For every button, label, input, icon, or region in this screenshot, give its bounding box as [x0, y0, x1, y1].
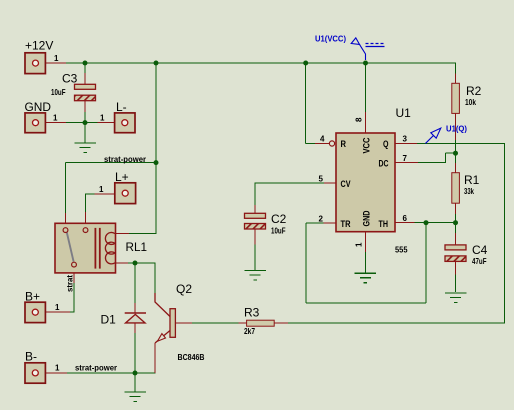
relay switch arm — [67, 232, 74, 261]
junction GND row — [83, 120, 88, 125]
wire B- row — [45, 372, 67, 374]
ground below B- row — [124, 392, 146, 402]
transistor Q2 — [155, 282, 205, 362]
svg-text:strat: strat — [65, 275, 75, 292]
wire C3 drop — [84, 63, 86, 73]
wire GND terminal row — [45, 122, 66, 124]
svg-text:1: 1 — [355, 242, 364, 247]
relay pin circle pole — [72, 262, 77, 267]
svg-text:Q: Q — [383, 139, 389, 150]
wire pin7 DC — [395, 162, 418, 164]
svg-text:10uF: 10uF — [271, 226, 286, 236]
svg-text:U1: U1 — [396, 106, 412, 120]
ground below C4 — [445, 293, 467, 303]
svg-text:Q2: Q2 — [176, 282, 192, 296]
svg-text:CV: CV — [341, 179, 351, 190]
svg-text:C3: C3 — [62, 72, 78, 86]
svg-text:6: 6 — [403, 214, 408, 223]
wire right edge vertical — [504, 143, 506, 323]
wire C4 branch — [455, 223, 457, 233]
svg-text:D1: D1 — [101, 313, 117, 327]
capacitor C4 — [445, 243, 488, 266]
junction TH loop — [424, 220, 429, 225]
svg-text:7: 7 — [403, 154, 408, 163]
relay pin circle common — [63, 228, 68, 233]
svg-text:R2: R2 — [466, 84, 482, 98]
wire R2 bottom — [455, 113, 457, 140]
wire C2 drop — [254, 183, 256, 206]
svg-text:C2: C2 — [271, 212, 287, 226]
terminal GND — [25, 100, 59, 133]
ground below C2 — [244, 271, 266, 281]
pin4 inversion bubble — [329, 141, 334, 146]
svg-text:B-: B- — [25, 350, 37, 364]
wire R3 to right edge — [274, 322, 288, 324]
svg-text:555: 555 — [395, 245, 408, 255]
svg-text:L-: L- — [116, 100, 127, 114]
wire coil top connection — [129, 233, 157, 235]
svg-text:1: 1 — [54, 54, 59, 63]
wire B+ row — [45, 311, 70, 313]
svg-text:R3: R3 — [244, 306, 260, 320]
wire base to R3 — [175, 322, 192, 324]
wire top-right corner down to R2 — [455, 63, 457, 74]
svg-text:U1(Q): U1(Q) — [446, 125, 467, 134]
wire pin3 Q output — [395, 142, 417, 144]
wire pin8 VCC stub — [365, 63, 367, 112]
op-amp U1 555 chip body — [319, 106, 412, 255]
junction R1-C4-TH — [453, 220, 458, 225]
wire collector drop — [154, 263, 156, 293]
wire D1 branch lower — [134, 323, 136, 333]
relay coil core bars — [94, 228, 96, 269]
svg-text:1: 1 — [100, 114, 105, 123]
svg-text:5: 5 — [319, 175, 324, 184]
wire pin2 TR — [324, 222, 336, 224]
relay coil loops — [105, 232, 115, 263]
wire pin6 TH — [395, 222, 415, 224]
svg-text:1: 1 — [55, 364, 60, 373]
junction top rail at x156 — [154, 61, 159, 66]
power flag U1(VCC) — [315, 35, 385, 61]
svg-text:+12V: +12V — [25, 39, 53, 53]
terminal +12V — [25, 39, 59, 74]
wire R1 top — [455, 153, 457, 163]
wire TR loop right vertical — [425, 223, 427, 303]
wire coil bottom connection — [115, 262, 128, 264]
svg-text:strat-power: strat-power — [75, 363, 118, 373]
wire pin4 R — [305, 63, 307, 144]
svg-text:TR: TR — [341, 219, 351, 230]
svg-text:4: 4 — [320, 135, 325, 144]
svg-text:2k7: 2k7 — [244, 326, 255, 336]
svg-text:10uF: 10uF — [51, 87, 66, 97]
svg-text:8: 8 — [355, 117, 364, 122]
wire TR loop left vertical — [305, 223, 307, 303]
relay RL1 — [55, 223, 147, 273]
svg-text:BC846B: BC846B — [178, 352, 205, 362]
wire C2 ground stub — [254, 229, 256, 245]
junction R2-R1-DC — [453, 151, 458, 156]
wire R1 bottom — [455, 203, 457, 214]
svg-text:GND: GND — [362, 210, 373, 226]
wire C3 to GND row — [84, 101, 86, 112]
wire top rail — [66, 62, 456, 64]
resistor R2 — [452, 83, 482, 113]
terminal B- — [25, 350, 60, 384]
ground below GND terminal — [74, 143, 96, 153]
svg-text:RL1: RL1 — [126, 240, 148, 254]
junction B- row — [133, 371, 138, 376]
svg-text:R1: R1 — [464, 173, 480, 187]
resistor R3 — [244, 306, 274, 337]
wire down to relay common — [65, 163, 67, 213]
junction top rail at pin4 drop — [303, 61, 308, 66]
svg-text:2: 2 — [319, 214, 324, 223]
wire emitter down — [154, 343, 156, 373]
wire pin5 CV — [324, 182, 336, 184]
wire pin1 GND stub — [365, 232, 367, 252]
terminal L+ — [99, 170, 136, 204]
svg-text:DC: DC — [379, 159, 389, 170]
svg-text:strat-power: strat-power — [104, 154, 147, 164]
svg-text:B+: B+ — [25, 290, 40, 304]
junction strat-power — [154, 160, 159, 165]
diode D1 — [101, 313, 147, 327]
capacitor C3 — [51, 72, 96, 101]
wire ground stub below GND row — [84, 123, 86, 143]
wire B+ up to relay pole — [73, 283, 75, 312]
wire TR loop bottom — [306, 302, 426, 304]
wire L+ to relay contact — [95, 193, 115, 195]
ground below 555 pin1 — [355, 273, 377, 283]
relay pin circle NO — [83, 228, 88, 233]
wire strat-power horizontal — [66, 162, 157, 164]
svg-text:33k: 33k — [464, 186, 474, 196]
probe arrow U1(Q) — [425, 125, 467, 144]
svg-text:U1(VCC): U1(VCC) — [315, 35, 346, 44]
svg-text:10k: 10k — [465, 97, 476, 107]
svg-text:TH: TH — [379, 219, 389, 230]
terminal B+ — [25, 290, 60, 323]
svg-text:1: 1 — [99, 185, 104, 194]
resistor R1 — [452, 173, 480, 204]
junction top rail at C3 — [83, 61, 88, 66]
terminal L- — [100, 100, 135, 133]
svg-text:GND: GND — [25, 100, 52, 114]
svg-text:1: 1 — [55, 303, 60, 312]
wire vertical x156 top — [155, 63, 157, 234]
capacitor C2 — [245, 212, 287, 236]
svg-text:R: R — [341, 139, 347, 150]
svg-text:1: 1 — [53, 114, 58, 123]
junction top rail at VCC — [363, 61, 368, 66]
svg-text:L+: L+ — [115, 170, 129, 184]
junction coil bottom — [133, 261, 138, 266]
svg-text:C4: C4 — [472, 243, 488, 257]
wire D1 branch upper — [134, 263, 136, 303]
svg-text:47uF: 47uF — [472, 256, 487, 266]
svg-text:3: 3 — [403, 135, 408, 144]
wire top rail red part from +12V — [45, 62, 66, 64]
svg-text:VCC: VCC — [362, 137, 373, 153]
wire B- ground stub — [134, 373, 136, 392]
